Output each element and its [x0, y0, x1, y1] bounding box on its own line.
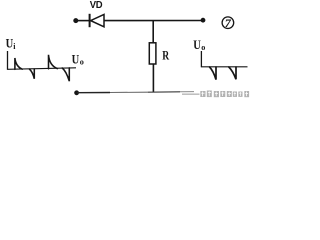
wire junction to resistor top	[152, 21, 154, 43]
label Uo right	[193, 38, 205, 52]
svg-text:7: 7	[225, 16, 232, 30]
svg-text:U: U	[6, 37, 14, 51]
svg-text:U: U	[72, 52, 80, 66]
node output top terminal	[201, 18, 206, 23]
label VD	[90, 0, 103, 11]
svg-text:o: o	[80, 58, 84, 67]
output waveform negative pulse 2	[229, 67, 236, 79]
wire top rail right segment	[104, 20, 201, 22]
label circled 7	[222, 16, 234, 30]
wire resistor bottom to bottom rail	[152, 64, 154, 92]
svg-text:U: U	[193, 38, 201, 52]
resistor R	[149, 43, 156, 64]
input waveform negative pulse 2	[62, 68, 69, 81]
svg-text:i: i	[13, 42, 16, 51]
input waveform Ui axes	[8, 51, 77, 70]
svg-text:o: o	[201, 43, 205, 52]
label R	[162, 47, 169, 62]
input waveform negative pulse 1	[29, 69, 34, 79]
input waveform positive pulse 1	[15, 58, 22, 69]
wire bottom rail	[77, 92, 194, 93]
node input bottom terminal	[74, 90, 79, 95]
wire top rail left segment	[76, 20, 90, 22]
diode VD	[90, 14, 104, 27]
svg-text:R: R	[162, 47, 169, 62]
node input top terminal	[73, 18, 78, 23]
label Ui	[6, 37, 17, 52]
svg-text:VD: VD	[90, 0, 103, 11]
output waveform Uo axes	[201, 51, 247, 67]
label Uo left	[72, 52, 84, 66]
output waveform negative pulse 1	[210, 67, 217, 80]
input waveform positive pulse 2	[49, 55, 58, 69]
